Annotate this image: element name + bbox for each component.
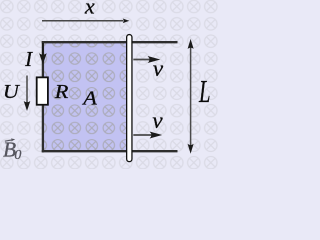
svg-text:R: R: [54, 81, 69, 103]
background with faint field symbols: [0, 0, 220, 169]
svg-text:L: L: [198, 74, 210, 109]
wire top rail: [42, 41, 178, 43]
field region A (shaded square with B symbols): [44, 43, 131, 151]
svg-text:I: I: [24, 47, 33, 71]
wire left segment: [42, 41, 44, 152]
svg-text:x: x: [84, 0, 95, 18]
resistor R: [37, 77, 48, 104]
arrow x (displacement): [42, 19, 129, 24]
arrow U (voltage): [24, 76, 31, 112]
arrow v lower (velocity): [133, 132, 162, 139]
svg-text:0: 0: [14, 148, 21, 163]
svg-text:v: v: [153, 56, 164, 81]
label B0 vector (field): [3, 137, 21, 163]
arrow v upper (velocity): [133, 56, 160, 63]
svg-text:v: v: [152, 108, 163, 133]
svg-text:U: U: [3, 82, 21, 103]
wire bottom rail: [42, 150, 178, 152]
arrow I (current): [39, 43, 47, 64]
sliding rod conductor: [127, 35, 132, 162]
svg-text:A: A: [81, 88, 97, 109]
dimension arrow L: [188, 39, 194, 154]
